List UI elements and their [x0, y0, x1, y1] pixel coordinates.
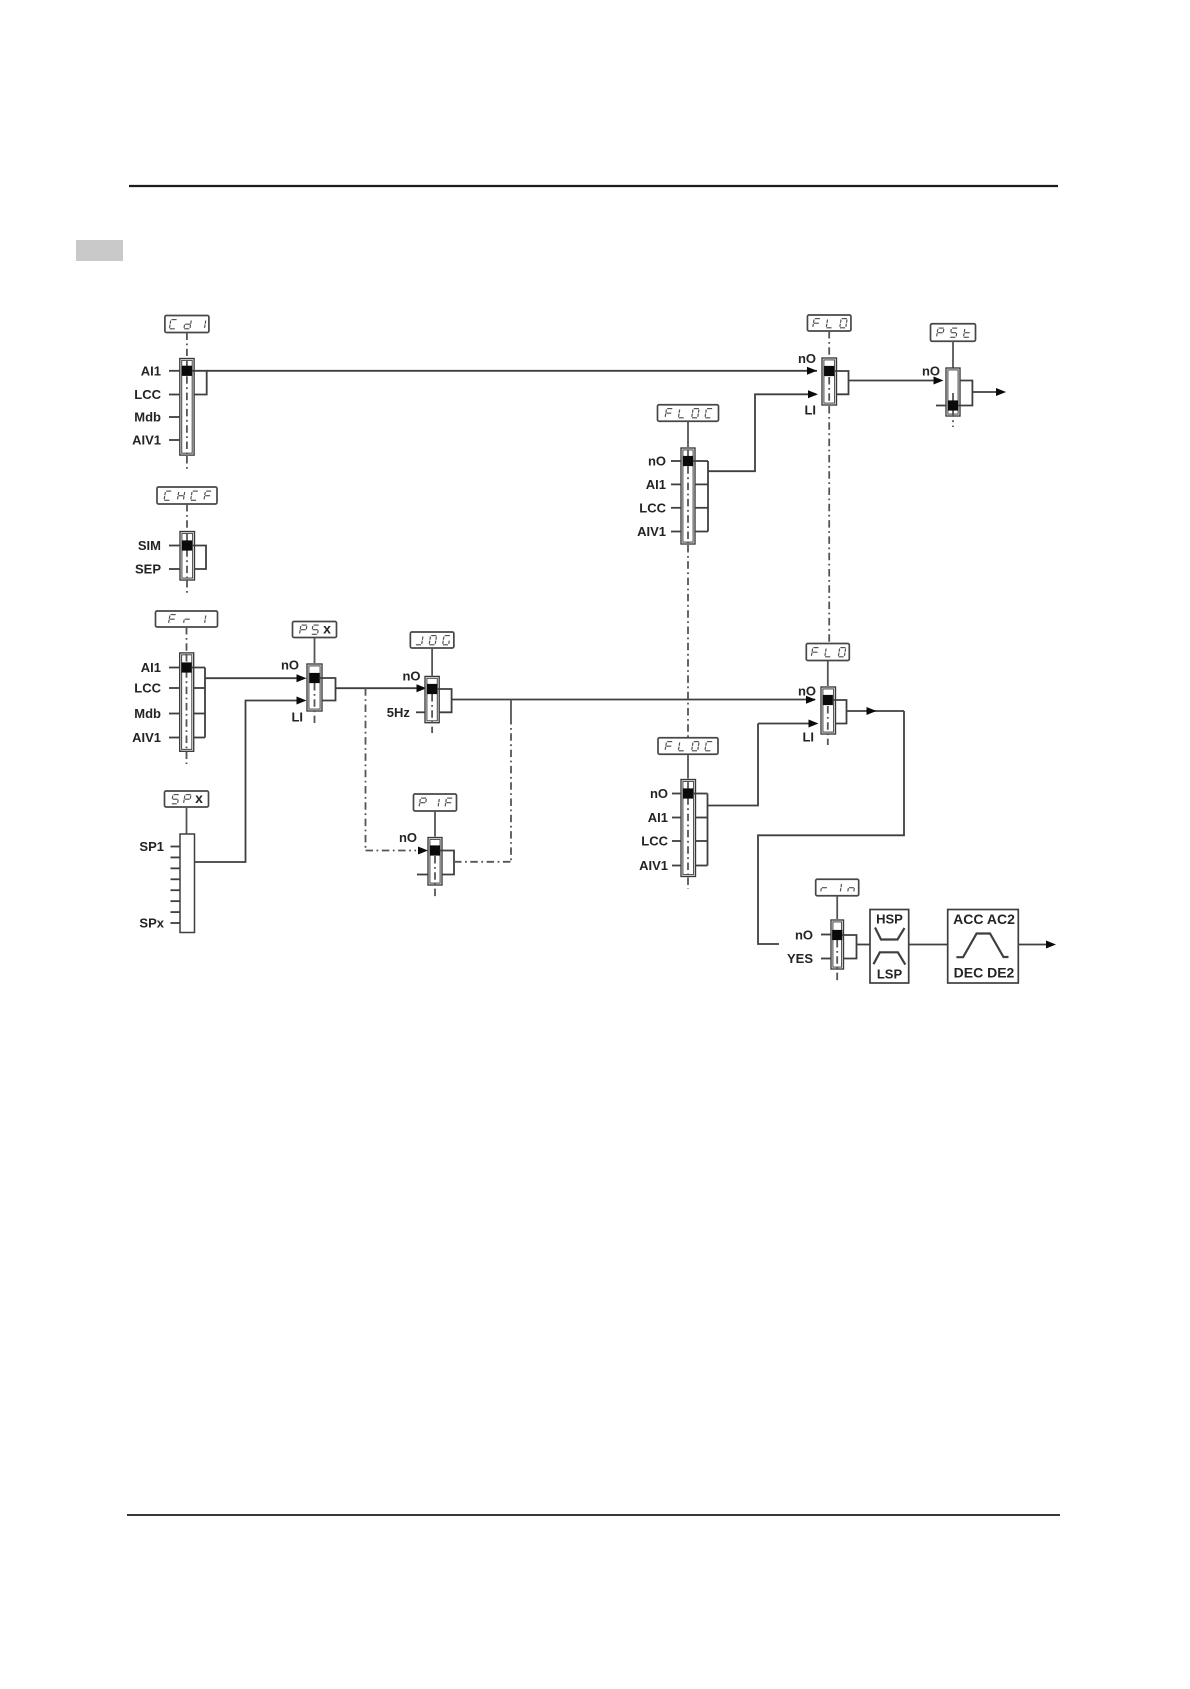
- svg-text:SIM: SIM: [138, 538, 161, 553]
- svg-text:nO: nO: [798, 351, 816, 366]
- svg-text:x: x: [323, 621, 331, 637]
- svg-text:YES: YES: [787, 951, 813, 966]
- svg-text:nO: nO: [795, 928, 813, 943]
- svg-text:SPx: SPx: [139, 916, 164, 931]
- svg-text:SP1: SP1: [139, 839, 164, 854]
- svg-text:HSP: HSP: [876, 912, 903, 927]
- svg-text:nO: nO: [922, 364, 940, 379]
- svg-text:Mdb: Mdb: [134, 410, 161, 425]
- svg-text:LSP: LSP: [877, 967, 903, 982]
- svg-text:AIV1: AIV1: [639, 858, 668, 873]
- svg-text:nO: nO: [281, 658, 299, 673]
- svg-text:Mdb: Mdb: [134, 706, 161, 721]
- svg-text:nO: nO: [648, 454, 666, 469]
- svg-text:SEP: SEP: [135, 562, 161, 577]
- svg-text:AI1: AI1: [141, 364, 161, 379]
- svg-text:AI1: AI1: [646, 477, 666, 492]
- svg-text:DEC DE2: DEC DE2: [954, 965, 1015, 981]
- svg-text:LCC: LCC: [641, 834, 668, 849]
- svg-text:LCC: LCC: [134, 681, 161, 696]
- svg-text:AIV1: AIV1: [132, 433, 161, 448]
- svg-text:LI: LI: [802, 730, 814, 745]
- svg-text:AI1: AI1: [141, 660, 161, 675]
- svg-text:LCC: LCC: [134, 387, 161, 402]
- svg-text:LI: LI: [291, 710, 303, 725]
- svg-text:ACC AC2: ACC AC2: [953, 911, 1015, 927]
- svg-text:nO: nO: [402, 669, 420, 684]
- svg-text:x: x: [195, 790, 203, 806]
- svg-text:nO: nO: [650, 786, 668, 801]
- svg-text:AI1: AI1: [648, 810, 668, 825]
- svg-text:LI: LI: [804, 403, 816, 418]
- svg-text:AIV1: AIV1: [132, 730, 161, 745]
- svg-text:nO: nO: [798, 684, 816, 699]
- svg-text:nO: nO: [399, 830, 417, 845]
- svg-text:5Hz: 5Hz: [387, 705, 411, 720]
- svg-text:AIV1: AIV1: [637, 524, 666, 539]
- svg-text:LCC: LCC: [639, 501, 666, 516]
